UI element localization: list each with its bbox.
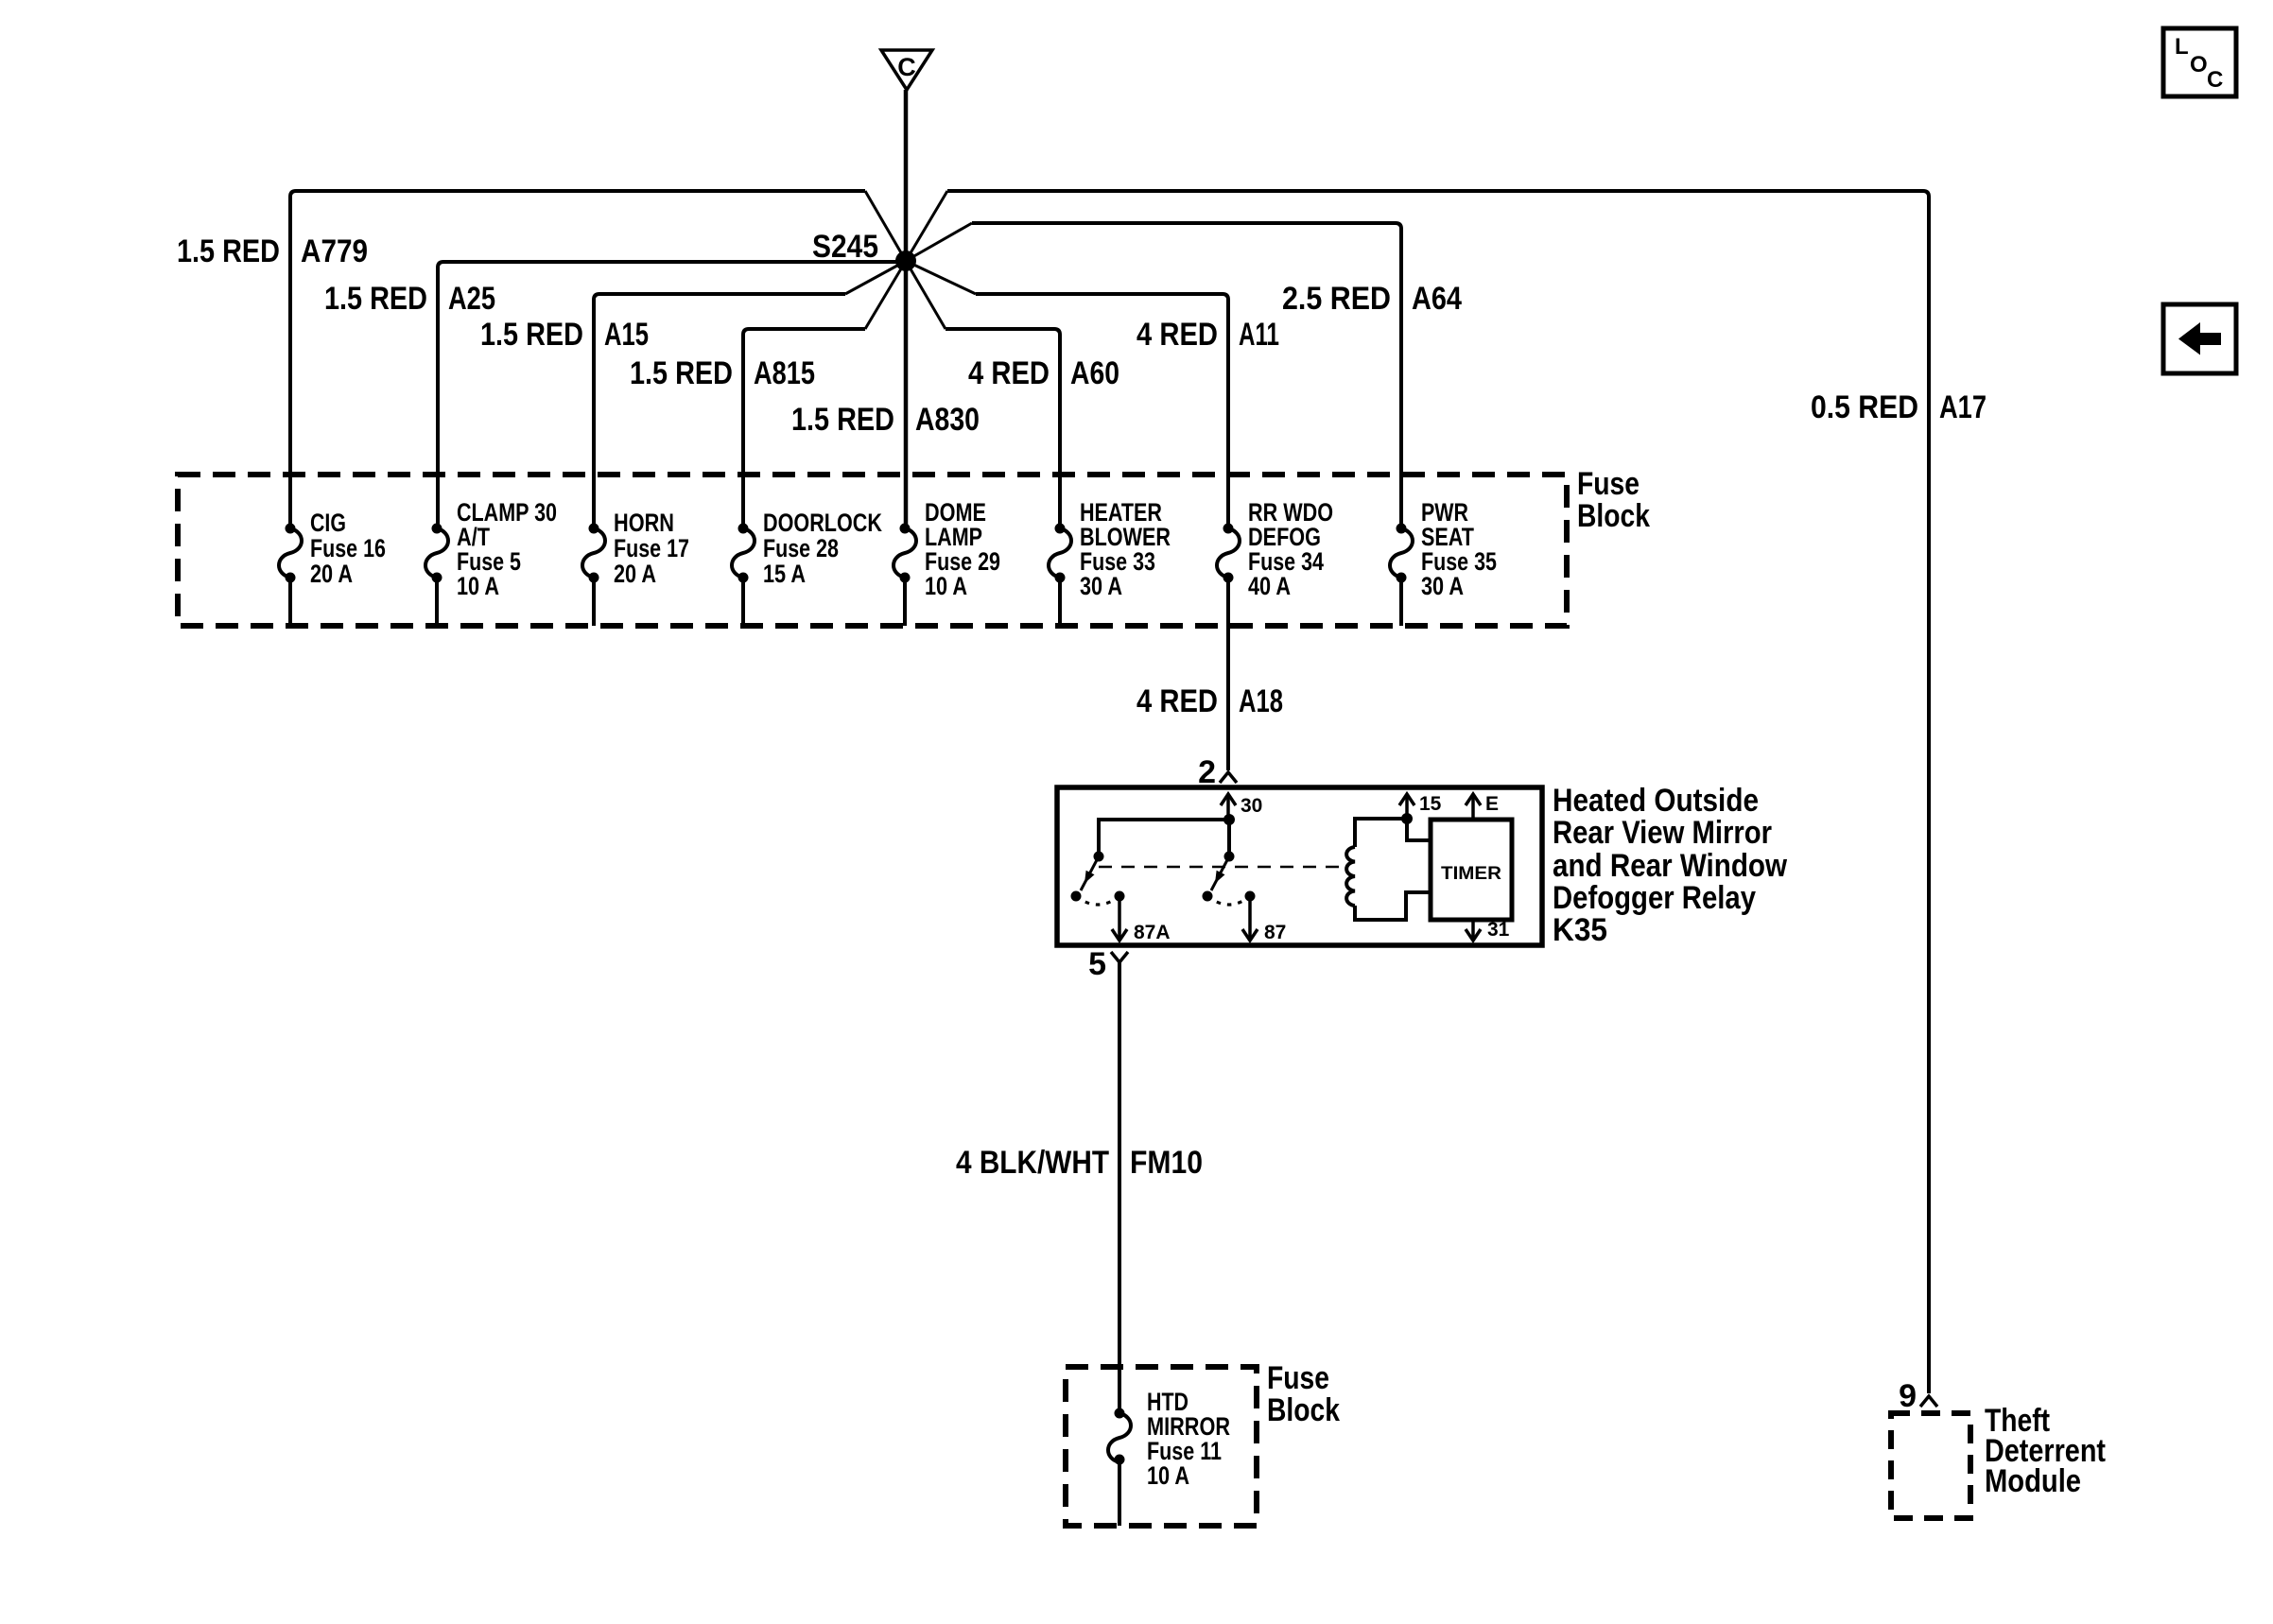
fuse DOORLOCK Fuse 28 15 A (738, 524, 749, 534)
relay internal junction dot at pin 30 (1223, 814, 1235, 825)
svg-text:A830: A830 (915, 402, 980, 438)
svg-text:87A: 87A (1134, 922, 1171, 943)
svg-text:Fuse: Fuse (1577, 466, 1640, 502)
svg-text:2.5 RED: 2.5 RED (1282, 281, 1391, 317)
svg-text:30 A: 30 A (1421, 572, 1464, 600)
wire 1.5 RED A815 from S245 to DOORLOCK fuse (743, 329, 865, 528)
relay coil (1355, 819, 1407, 847)
theft deterrent module dashed box (1891, 1413, 1970, 1518)
svg-text:CIG: CIG (310, 509, 346, 537)
relay switch 1 arm (pivot) (1081, 856, 1099, 890)
svg-text:Defogger Relay: Defogger Relay (1553, 880, 1756, 916)
svg-text:30: 30 (1241, 795, 1262, 817)
fuse CIG Fuse 16 20 A (286, 524, 296, 534)
svg-text:Block: Block (1267, 1392, 1340, 1428)
svg-text:A779: A779 (301, 233, 368, 269)
svg-text:87: 87 (1264, 922, 1286, 943)
svg-text:TIMER: TIMER (1441, 864, 1501, 884)
svg-text:10 A: 10 A (925, 572, 967, 600)
wire: vertical feed from connector C through splice S245 to DOME LAMP fuse (1.5 RED A830) (904, 90, 909, 528)
svg-text:1.5 RED: 1.5 RED (630, 355, 733, 391)
svg-text:K35: K35 (1553, 912, 1607, 948)
svg-text:Fuse 28: Fuse 28 (763, 534, 839, 562)
wire 0.5 RED A17 from S245 to theft deterrent module (947, 191, 1929, 1393)
connector C symbol (881, 50, 932, 90)
svg-text:5: 5 (1088, 946, 1106, 982)
svg-text:4 RED: 4 RED (1136, 317, 1218, 353)
svg-text:S245: S245 (812, 229, 878, 265)
fuse block (upper) dashed outline (178, 475, 1567, 626)
svg-text:0.5 RED: 0.5 RED (1811, 389, 1918, 425)
svg-text:30 A: 30 A (1080, 572, 1122, 600)
splice S245 (895, 251, 916, 271)
svg-text:9: 9 (1899, 1378, 1917, 1414)
LOC icon box (2163, 28, 2236, 96)
svg-text:4 RED: 4 RED (968, 355, 1050, 391)
relay pin 5 connector Y symbol (1111, 952, 1128, 962)
relay switch 2 contacts and dotted travel arc (1203, 891, 1213, 902)
svg-text:Fuse: Fuse (1267, 1360, 1329, 1396)
svg-text:A60: A60 (1070, 355, 1119, 391)
wire 2.5 RED A64 from S245 to PWR SEAT fuse (972, 223, 1401, 528)
relay switch 2 arm (pivot) (1211, 856, 1229, 890)
svg-text:and Rear Window: and Rear Window (1553, 848, 1787, 884)
svg-text:Rear View Mirror: Rear View Mirror (1553, 815, 1772, 851)
svg-text:A25: A25 (448, 281, 495, 317)
svg-text:15: 15 (1419, 793, 1442, 815)
relay internal wire from pin 30 to switch 1 (1099, 820, 1229, 856)
relay pin E arrow (1471, 794, 1475, 820)
svg-text:31: 31 (1487, 919, 1510, 941)
svg-text:Module: Module (1985, 1463, 2081, 1499)
svg-text:1.5 RED: 1.5 RED (480, 317, 583, 353)
fuse PWR SEAT Fuse 35 30 A (1397, 524, 1407, 534)
back arrow icon box (2163, 304, 2236, 373)
svg-text:4 BLK/WHT: 4 BLK/WHT (956, 1145, 1109, 1181)
fuse HEATER BLOWER Fuse 33 30 A (1055, 524, 1066, 534)
wire 1.5 RED A779 from S245 to CIG fuse (290, 191, 865, 528)
svg-text:A64: A64 (1412, 281, 1462, 317)
wire 1.5 RED A15 from S245 to HORN fuse (594, 294, 845, 528)
fuse DOME LAMP Fuse 29 10 A (900, 524, 911, 534)
relay pin 87A arrow (1118, 896, 1121, 941)
theft deterrent module pin 9 connector chevron (1920, 1396, 1937, 1407)
svg-text:A17: A17 (1939, 389, 1987, 425)
svg-text:4 RED: 4 RED (1136, 683, 1218, 719)
svg-text:E: E (1485, 793, 1499, 815)
svg-text:O: O (2190, 52, 2208, 78)
svg-text:1.5 RED: 1.5 RED (324, 281, 427, 317)
svg-text:A815: A815 (754, 355, 815, 391)
fuse CLAMP 30 A/T Fuse 5 10 A (432, 524, 442, 534)
svg-text:A15: A15 (604, 317, 649, 353)
wire 4 RED A18 from RR WDO DEFOG fuse to relay pin 2 (1226, 626, 1230, 770)
svg-text:20 A: 20 A (614, 560, 656, 588)
svg-text:15 A: 15 A (763, 560, 806, 588)
fuse HTD MIRROR Fuse 11 10 A (1115, 1408, 1125, 1419)
svg-text:C: C (2207, 67, 2223, 93)
relay mechanical linkage (dashed) (1099, 866, 1346, 869)
svg-text:Fuse 17: Fuse 17 (614, 534, 689, 562)
wire 4 RED A11 from S245 to RR WDO DEFOG fuse (976, 294, 1228, 528)
relay pin 31 arrow (1471, 920, 1475, 941)
svg-text:Fuse 16: Fuse 16 (310, 534, 386, 562)
relay switch 1 contacts and dotted travel arc (1071, 891, 1082, 902)
svg-text:HORN: HORN (614, 509, 674, 537)
svg-text:FM10: FM10 (1130, 1145, 1203, 1181)
svg-text:Heated Outside: Heated Outside (1553, 783, 1759, 819)
svg-text:L: L (2175, 34, 2189, 60)
svg-text:A18: A18 (1239, 683, 1283, 719)
svg-text:C: C (897, 53, 916, 81)
fuse RR WDO DEFOG Fuse 34 40 A (1223, 524, 1234, 534)
svg-text:1.5 RED: 1.5 RED (177, 233, 280, 269)
relay TIMER box (1431, 820, 1512, 920)
wire 4 RED A60 from S245 to HEATER BLOWER fuse (946, 329, 1060, 528)
wire 1.5 RED A25 from S245 to CLAMP 30 fuse (438, 262, 906, 528)
relay pin 30 arrow (1226, 794, 1230, 820)
wire 4 BLK/WHT FM10 from relay pin 5 to HTD MIRROR fuse (1118, 962, 1121, 1413)
svg-text:20 A: 20 A (310, 560, 353, 588)
relay pin 87 arrow (1248, 896, 1252, 941)
svg-text:1.5 RED: 1.5 RED (791, 402, 894, 438)
svg-text:Block: Block (1577, 498, 1650, 534)
svg-text:A11: A11 (1239, 317, 1279, 353)
svg-text:DOORLOCK: DOORLOCK (763, 509, 882, 537)
relay pin 2 connector chevron (1220, 772, 1237, 783)
relay pin 15 arrow (1405, 794, 1409, 819)
fuse block (lower) dashed outline (1066, 1367, 1257, 1526)
relay K35 box (1057, 787, 1542, 945)
svg-text:40 A: 40 A (1248, 572, 1291, 600)
svg-text:10 A: 10 A (1147, 1461, 1189, 1490)
svg-text:10 A: 10 A (457, 572, 499, 600)
fuse HORN Fuse 17 20 A (589, 524, 599, 534)
